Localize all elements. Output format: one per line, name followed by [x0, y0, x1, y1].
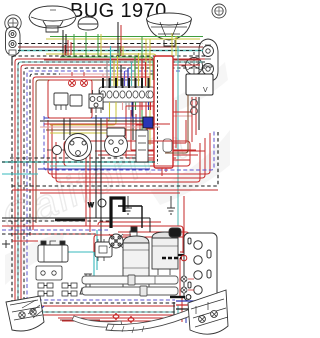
- headlamp unit left: [6, 27, 21, 55]
- svg-text:W: W: [88, 203, 94, 209]
- ignition relay: [95, 239, 112, 261]
- wire diagonals to left taillight: [22, 300, 44, 320]
- bolt symbols rear: [181, 276, 194, 293]
- fuse box: [99, 78, 155, 102]
- radio box: [154, 56, 173, 168]
- mid band dashed+red full width: [2, 158, 218, 193]
- wires under fusebox fan: [50, 102, 205, 155]
- vdrop knots: [191, 64, 214, 115]
- taillight left: [6, 296, 44, 331]
- lower rail wires: [2, 218, 189, 253]
- generator: [115, 227, 157, 288]
- ground symbol B: [167, 196, 175, 214]
- red loops right: [48, 120, 210, 182]
- wire red mesh right: [126, 100, 196, 176]
- wire W loop: [88, 199, 106, 209]
- starter: [152, 228, 186, 275]
- turn signal flasher red box: [48, 80, 92, 118]
- ignition coil: [38, 241, 68, 262]
- horn left: [5, 15, 21, 35]
- black frame lines: [118, 206, 142, 228]
- wire dash lower: [2, 234, 95, 248]
- taillight right: [188, 290, 228, 334]
- fuse output stubs: [103, 102, 151, 110]
- switch column: [136, 130, 148, 162]
- wire mid horizontals pack: [40, 118, 170, 133]
- dark connector block: [143, 117, 153, 128]
- wire V-box drop bundle: [165, 95, 199, 153]
- relay box A: [54, 93, 68, 110]
- fuel gauge: [105, 128, 128, 157]
- fuse feed wires: [103, 46, 146, 86]
- radio pill: [163, 139, 172, 152]
- speedometer: [47, 134, 92, 161]
- axle tube lower: [82, 286, 178, 296]
- wires to right taillight: [176, 301, 208, 322]
- distributor: [109, 234, 123, 248]
- regulator disc G: [182, 52, 207, 75]
- black bracket component: [111, 198, 124, 228]
- ignition switch: [89, 90, 103, 113]
- headlight bowl right: [147, 13, 192, 46]
- small dome: [78, 16, 98, 31]
- engine ground strap: [170, 295, 191, 300]
- spark connector row: [162, 255, 187, 261]
- svg-text:V: V: [203, 87, 208, 94]
- wire center verticals: [64, 115, 107, 246]
- axle tube upper: [82, 275, 178, 285]
- violet loop: [44, 116, 214, 170]
- running board small: [72, 316, 122, 327]
- radio box dash: [157, 60, 159, 164]
- label V: [203, 87, 208, 94]
- wire bundle top horizontals: [12, 56, 205, 315]
- bumper swoosh: [106, 294, 225, 333]
- wire cross-car top pair: [18, 37, 203, 51]
- cutout relay: [36, 266, 62, 280]
- engine block: [184, 233, 217, 301]
- regulator box V: [186, 74, 213, 95]
- connector pairs grid: [38, 283, 77, 296]
- wire cyan engine: [2, 174, 97, 284]
- headlight bowl left: [29, 6, 76, 32]
- ground symbol A: [124, 196, 132, 214]
- horn right: [212, 4, 226, 18]
- watermark california: [0, 62, 230, 285]
- fuel sender: [80, 274, 96, 294]
- relay box B: [70, 95, 82, 106]
- bulb symbol pair: [69, 72, 88, 87]
- heater bar: [55, 219, 85, 222]
- title BUG 1970: [70, 0, 167, 22]
- wire loop black dashed outer: [12, 56, 218, 315]
- wire colored top extras: [44, 22, 200, 226]
- red loop distributor: [94, 235, 131, 252]
- headlamp unit right: [199, 39, 218, 81]
- bottom rail wires: [58, 296, 186, 323]
- wire red engine: [98, 196, 184, 296]
